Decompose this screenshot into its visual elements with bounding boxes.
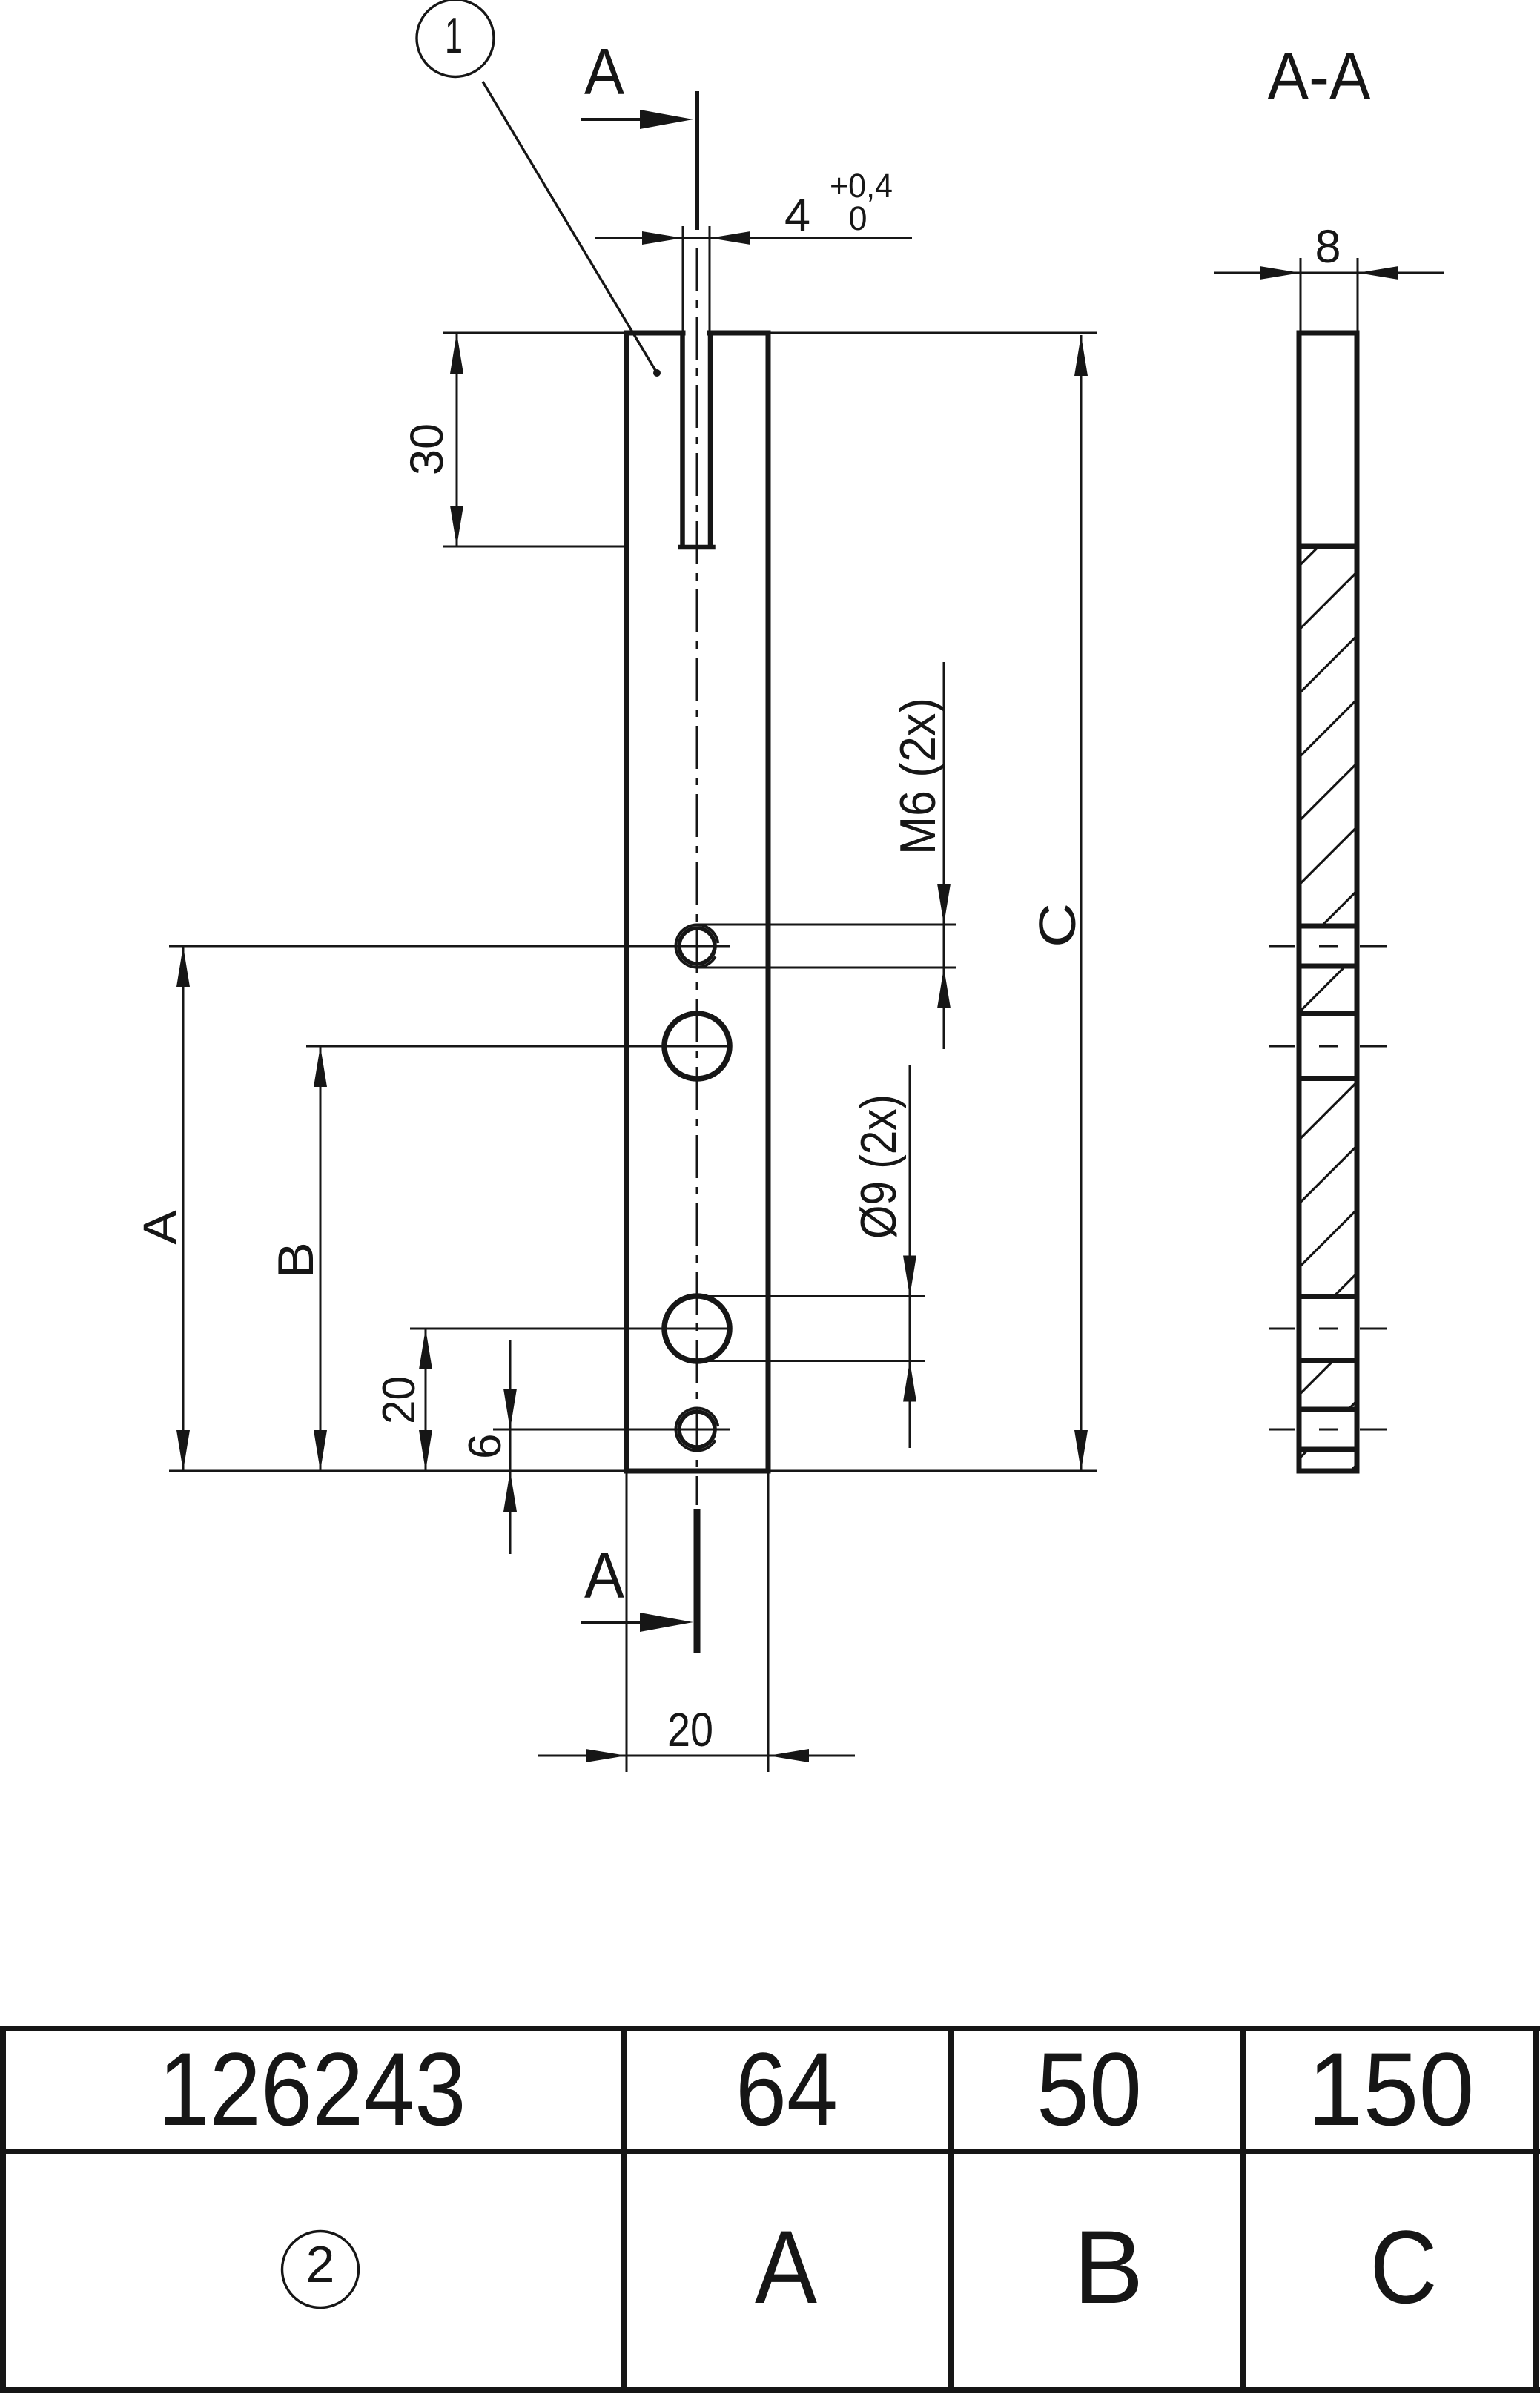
svg-text:64: 64 xyxy=(736,2031,838,2147)
svg-text:20: 20 xyxy=(667,1703,713,1756)
hole M6 #2 xyxy=(679,1412,715,1447)
leader line balloon 1 xyxy=(483,82,657,373)
dimension A left xyxy=(133,946,730,1471)
svg-text:A-A: A-A xyxy=(1268,39,1371,114)
svg-text:A: A xyxy=(584,1538,624,1612)
svg-text:A: A xyxy=(584,35,624,108)
dimension 8 side view xyxy=(1214,221,1444,333)
dimension 4 +0,4/0 xyxy=(595,167,912,333)
side view outline xyxy=(1299,333,1357,1471)
dimension M6 (2x) xyxy=(697,662,956,1049)
plate outline main view xyxy=(627,333,768,1471)
dimension B left xyxy=(268,1046,730,1471)
side view hole M6 #2 walls xyxy=(1299,1407,1357,1412)
svg-text:20: 20 xyxy=(374,1376,425,1424)
svg-text:B: B xyxy=(1074,2209,1144,2325)
side view centerline hole D9 #1 xyxy=(1269,1045,1387,1048)
side view centerline hole D9 #2 xyxy=(1269,1328,1387,1330)
side view hole D9 #1 walls xyxy=(1299,1011,1357,1016)
section arrow top xyxy=(581,118,645,121)
svg-text:C: C xyxy=(1028,903,1086,948)
side view centerline hole M6 #2 xyxy=(1269,1429,1387,1431)
dimension D9 (2x) xyxy=(697,1065,925,1448)
centerline main vertical xyxy=(696,248,698,1505)
svg-text:C: C xyxy=(1370,2209,1438,2325)
svg-text:2: 2 xyxy=(306,2235,335,2293)
svg-text:Ø9 (2x): Ø9 (2x) xyxy=(850,1094,907,1239)
svg-text:4: 4 xyxy=(784,190,810,242)
hole M6 #1 xyxy=(679,928,715,964)
svg-text:A: A xyxy=(133,1210,187,1245)
side view centerline hole M6 #1 xyxy=(1269,945,1387,948)
dimension 20 bottom xyxy=(538,1471,855,1772)
svg-text:1: 1 xyxy=(445,7,463,64)
section cut line top xyxy=(695,91,699,230)
svg-text:0: 0 xyxy=(848,199,867,237)
side view hole M6 #1 walls xyxy=(1299,924,1357,929)
dimension 20 left xyxy=(374,1329,730,1471)
bottom extension line right of plate xyxy=(768,1470,1097,1472)
svg-text:6: 6 xyxy=(460,1434,511,1459)
svg-text:126243: 126243 xyxy=(159,2031,466,2147)
side view hatch areas xyxy=(1299,546,1357,1471)
svg-text:B: B xyxy=(268,1242,324,1278)
dimension C right xyxy=(1028,335,1088,1471)
svg-text:M6 (2x): M6 (2x) xyxy=(890,698,946,855)
svg-text:30: 30 xyxy=(401,423,453,475)
side view hole D9 #2 walls xyxy=(1299,1294,1357,1299)
svg-text:150: 150 xyxy=(1308,2031,1475,2147)
section arrow bottom xyxy=(581,1621,645,1624)
leader dot xyxy=(653,369,661,377)
bottom extension line left of plate xyxy=(169,1470,627,1472)
side view slot bottom line xyxy=(1299,544,1357,549)
dimension 30 xyxy=(401,333,627,546)
slot xyxy=(681,333,713,547)
dimension 6 xyxy=(460,1340,730,1554)
balloon 2 in table xyxy=(282,2232,359,2308)
top extension line right of plate xyxy=(768,332,1097,334)
table frame xyxy=(0,2026,1540,2393)
svg-text:8: 8 xyxy=(1315,221,1341,273)
svg-text:50: 50 xyxy=(1037,2031,1142,2147)
svg-text:A: A xyxy=(755,2209,818,2325)
balloon 1 xyxy=(417,0,494,77)
hole D9 #1 xyxy=(664,1014,730,1079)
section cut line bottom xyxy=(694,1509,701,1653)
hole D9 #2 xyxy=(664,1296,730,1361)
